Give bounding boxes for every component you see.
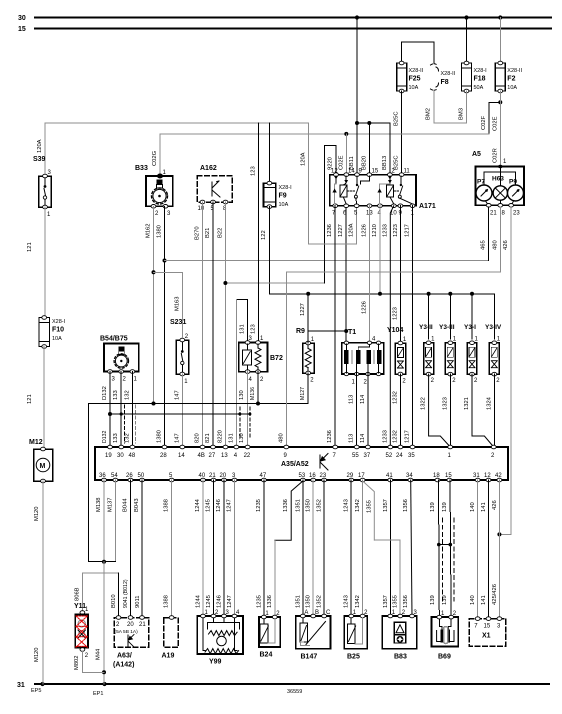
wire 1243 : ECU pin29 to B25 pin 1 xyxy=(350,480,352,616)
windings xyxy=(344,350,348,364)
svg-text:8220: 8220 xyxy=(218,430,224,443)
svg-text:BB20: BB20 xyxy=(361,156,367,170)
wire 1388 : ECU pin5 to A19 xyxy=(171,480,173,618)
svg-text:20: 20 xyxy=(220,473,227,479)
fuse F10 xyxy=(39,316,66,349)
svg-text:1210: 1210 xyxy=(372,224,378,237)
svg-text:B044: B044 xyxy=(123,498,129,512)
svg-text:1232: 1232 xyxy=(392,430,398,443)
svg-text:1244: 1244 xyxy=(195,498,201,512)
svg-text:1247: 1247 xyxy=(227,595,233,608)
stepper motor Y99 xyxy=(197,610,243,666)
wire feed rail : injectors/R9 rail xyxy=(269,293,494,295)
wire 1356 : ECU pin34 to B83 pin 3 xyxy=(411,480,412,616)
wire 1236 : A171 pin7 to ECU pin 7 xyxy=(334,206,336,447)
svg-text:114: 114 xyxy=(360,433,366,443)
svg-text:1235: 1235 xyxy=(256,499,262,512)
wire 139 : ECU pin18 to B69 pin 1 xyxy=(438,480,441,617)
wire 9220 line : A162 pin 8 net to A171 pin 12 xyxy=(225,282,324,284)
svg-text:140: 140 xyxy=(470,595,476,605)
svg-text:X1: X1 xyxy=(482,633,491,640)
svg-text:29: 29 xyxy=(347,473,354,479)
junction M162/M163 xyxy=(152,270,156,274)
wire F2 feed from rail 30 xyxy=(499,18,501,64)
svg-text:40: 40 xyxy=(199,473,206,479)
wire M127 : R9 pin2 to ground line xyxy=(258,373,308,404)
svg-text:1322: 1322 xyxy=(421,397,427,410)
svg-text:(A142): (A142) xyxy=(113,662,134,669)
svg-text:A35/A52: A35/A52 xyxy=(281,461,309,468)
wire 123 : rail to F9 xyxy=(268,123,270,183)
wire 1227 : A171 pin6 down to T1 xyxy=(345,206,347,343)
svg-text:14: 14 xyxy=(348,169,355,175)
svg-text:B270: B270 xyxy=(195,226,201,240)
svg-text:34: 34 xyxy=(406,473,413,479)
connector A19 dashed xyxy=(162,616,179,660)
svg-text:30: 30 xyxy=(117,453,124,459)
svg-text:131: 131 xyxy=(229,433,235,443)
svg-text:Y3-III: Y3-III xyxy=(439,324,455,331)
svg-text:F2: F2 xyxy=(507,76,515,83)
fuse F18 xyxy=(462,61,488,93)
svg-text:M802: M802 xyxy=(74,655,80,670)
svg-text:30: 30 xyxy=(18,15,26,22)
svg-text:15: 15 xyxy=(372,169,379,175)
svg-text:9041 (B012): 9041 (B012) xyxy=(123,579,129,608)
relay box A171 xyxy=(330,169,436,217)
svg-text:1223: 1223 xyxy=(393,224,399,237)
wire 139 : ECU pin15 to B69 pin 2 xyxy=(450,480,451,617)
svg-text:120A: 120A xyxy=(37,139,43,153)
svg-text:1235: 1235 xyxy=(256,595,262,608)
svg-text:M120: M120 xyxy=(34,647,40,662)
wire 120A : S39 up and across (line-1) xyxy=(45,123,308,173)
ECU bottom pin numbers xyxy=(99,473,502,479)
wire 114 : T1 pin2 to ECU pin 37 xyxy=(367,374,369,447)
svg-text:26: 26 xyxy=(126,473,133,479)
svg-text:B83: B83 xyxy=(394,654,407,661)
wire 1233 : A171 pin10 down to ECU pin 52 xyxy=(390,206,394,447)
svg-text:1226: 1226 xyxy=(361,301,367,314)
svg-text:B010: B010 xyxy=(111,594,117,608)
svg-text:B33: B33 xyxy=(135,165,148,172)
ECU bottom pin bumps xyxy=(102,478,502,482)
wire 147 : S231 pin1 to ECU pin 14 xyxy=(181,374,183,447)
svg-text:114: 114 xyxy=(360,394,366,404)
wire rail 31 xyxy=(35,683,549,685)
fuse F2 xyxy=(495,61,522,93)
svg-text:F9: F9 xyxy=(279,193,287,200)
svg-text:Y99: Y99 xyxy=(209,659,222,666)
svg-text:R9: R9 xyxy=(296,328,305,335)
svg-text:1236: 1236 xyxy=(327,224,333,237)
svg-text:1350: 1350 xyxy=(306,595,312,608)
svg-text:B69: B69 xyxy=(438,654,451,661)
wire 465 : to A5 pin 21 xyxy=(165,260,489,262)
wire D132 : B54 pin3 to ECU pin 19 xyxy=(109,372,111,448)
wire B21/821 : A162 pin5 to ECU xyxy=(212,202,214,447)
svg-text:1245: 1245 xyxy=(206,499,212,512)
svg-text:C02G: C02G xyxy=(152,150,158,166)
wire M802 : Y11 pin2 to M44 xyxy=(82,651,104,672)
wire M138 : ECU pin36 to ground merge xyxy=(103,480,105,562)
svg-text:20: 20 xyxy=(127,622,134,628)
svg-text:42: 42 xyxy=(495,473,502,479)
svg-text:1323: 1323 xyxy=(442,397,448,410)
svg-text:M120: M120 xyxy=(34,506,40,521)
svg-text:28: 28 xyxy=(160,453,167,459)
wire BB20 : rail drop to A171 pin 15 xyxy=(368,123,370,175)
shield dashes beside 133/132 xyxy=(124,405,126,443)
svg-text:1336: 1336 xyxy=(283,499,289,512)
svg-text:132: 132 xyxy=(124,390,130,400)
wire 1247 : ECU pin3 to Y99 pin 4 xyxy=(234,480,236,616)
svg-text:F8: F8 xyxy=(441,79,449,86)
svg-text:H63: H63 xyxy=(492,176,504,183)
svg-text:M44: M44 xyxy=(96,648,102,660)
svg-text:A171: A171 xyxy=(419,203,436,210)
sensor B72 xyxy=(239,336,283,383)
svg-text:1355: 1355 xyxy=(393,595,399,608)
svg-text:47: 47 xyxy=(260,473,267,479)
svg-text:123: 123 xyxy=(251,166,257,176)
svg-text:BM3: BM3 xyxy=(459,108,465,120)
svg-text:131: 131 xyxy=(240,324,246,334)
svg-text:50A: 50A xyxy=(474,85,484,91)
wire 1355 : ECU pin 17 jog to B83 pin 2 xyxy=(363,481,375,540)
svg-text:A162: A162 xyxy=(200,165,217,172)
wire bracket F25-F8 tops xyxy=(402,42,434,63)
wire BB13 : rail corner to A171 pin 2 xyxy=(369,123,390,175)
svg-text:M12: M12 xyxy=(29,439,43,446)
wire 1342 : ECU pin17 to B25 pin 2 xyxy=(362,480,364,616)
svg-text:1355: 1355 xyxy=(367,500,373,513)
svg-text:A: A xyxy=(304,610,308,616)
svg-text:41: 41 xyxy=(386,473,393,479)
svg-text:52: 52 xyxy=(386,453,393,459)
svg-text:1233: 1233 xyxy=(383,224,389,237)
injector Y3-II xyxy=(419,292,435,384)
svg-text:821: 821 xyxy=(205,433,211,443)
svg-text:1356: 1356 xyxy=(403,499,409,512)
svg-text:14: 14 xyxy=(178,453,185,459)
wire 465 : A5 pin21 down to 1380 tie line xyxy=(488,207,490,261)
wire 1235 : ECU pin47 to B24 pin 1 xyxy=(263,480,265,617)
svg-text:T1: T1 xyxy=(348,329,356,336)
svg-text:S39: S39 xyxy=(33,156,46,163)
svg-text:M163: M163 xyxy=(174,296,180,311)
svg-text:M138: M138 xyxy=(96,497,102,512)
svg-text:10A: 10A xyxy=(507,85,517,91)
ground merge bar xyxy=(89,561,116,563)
svg-text:1352: 1352 xyxy=(317,499,323,512)
svg-text:50: 50 xyxy=(138,473,145,479)
svg-text:1246: 1246 xyxy=(216,499,222,512)
svg-text:M: M xyxy=(40,463,46,470)
svg-text:113: 113 xyxy=(349,434,355,443)
svg-text:1227: 1227 xyxy=(338,224,344,237)
svg-text:X28-I: X28-I xyxy=(474,68,488,74)
svg-text:F25: F25 xyxy=(409,76,421,83)
svg-text:121: 121 xyxy=(27,394,33,404)
wire C02R : F2 to A5 pin 1 xyxy=(499,91,501,166)
svg-text:113: 113 xyxy=(349,395,355,404)
svg-text:21: 21 xyxy=(139,622,146,628)
svg-text:55: 55 xyxy=(352,453,359,459)
wire 806B : Y11 pin1 up over to A63 pin 2 xyxy=(82,573,118,612)
bottom pin bumps xyxy=(333,204,338,208)
sensor B33 (CO potentiometer) xyxy=(135,165,173,217)
svg-text:133: 133 xyxy=(113,390,119,400)
svg-text:1388: 1388 xyxy=(164,499,170,512)
svg-text:121: 121 xyxy=(27,242,33,252)
svg-text:4B: 4B xyxy=(198,453,205,459)
svg-text:1246: 1246 xyxy=(217,595,223,608)
svg-text:(5A 5B 1A): (5A 5B 1A) xyxy=(115,629,139,635)
bottom pins xyxy=(486,201,489,206)
svg-text:1236: 1236 xyxy=(327,430,333,443)
svg-text:B21: B21 xyxy=(205,228,211,238)
svg-text:806B: 806B xyxy=(74,587,80,601)
control unit A35/A52 xyxy=(95,447,508,480)
svg-text:1223: 1223 xyxy=(393,307,399,320)
svg-text:D132: D132 xyxy=(102,430,108,443)
wire 1380 : B33 pin3 down to ECU pin 28 xyxy=(164,206,166,447)
fuse F9 xyxy=(264,181,293,208)
junction C02E to A171 pin 14 xyxy=(344,132,348,136)
throttle sensor B147 xyxy=(296,610,331,661)
instrument block A5 xyxy=(472,151,524,217)
svg-text:53: 53 xyxy=(299,473,306,479)
svg-text:EP1: EP1 xyxy=(93,691,103,697)
wire 113 : T1 pin1 to ECU pin 55 xyxy=(356,374,358,447)
svg-text:1350: 1350 xyxy=(306,499,312,512)
svg-text:1336: 1336 xyxy=(267,595,273,608)
wire 140 : ECU pin31 to X1 pin 7 xyxy=(477,480,479,619)
control unit A63/(A142) dashed xyxy=(113,616,149,669)
wire C02F : F2 branch to C02 line xyxy=(489,102,500,134)
wire B22/8220 : A162 pin8 to ECU xyxy=(225,202,227,447)
left relay internals xyxy=(332,176,369,204)
wire 141 : ECU pin12 to X1 pin 15 xyxy=(488,480,490,619)
wire 1336 : ECU pin53 to B24 pin 2 xyxy=(275,481,303,540)
svg-text:B72: B72 xyxy=(270,355,283,362)
switch S231 xyxy=(170,319,189,385)
svg-text:B25C: B25C xyxy=(394,111,400,126)
svg-text:123: 123 xyxy=(251,324,257,334)
svg-text:S231: S231 xyxy=(170,319,186,326)
svg-text:Y3-IV: Y3-IV xyxy=(485,324,502,331)
injector Y3-I xyxy=(464,292,479,384)
svg-text:19: 19 xyxy=(105,453,112,459)
crank sensor B69 xyxy=(432,611,459,661)
wire 121 : S39 to F10 xyxy=(44,207,46,318)
wire 1246 : ECU pin20 to Y99 pin 3 xyxy=(223,480,225,616)
wire 1232 : Y104 pin2 to ECU pin 24 xyxy=(399,374,401,447)
svg-text:F18: F18 xyxy=(474,76,486,83)
svg-text:B043: B043 xyxy=(134,498,140,512)
svg-text:B25: B25 xyxy=(347,654,360,661)
svg-text:X28-II: X28-II xyxy=(441,71,456,77)
ground line 1 : M162/M136 collector xyxy=(89,404,154,562)
motor M12 xyxy=(29,439,53,483)
svg-text:X28-II: X28-II xyxy=(409,68,424,74)
svg-text:426: 426 xyxy=(503,240,509,250)
svg-text:425/426: 425/426 xyxy=(492,584,498,605)
svg-text:1233: 1233 xyxy=(382,430,388,443)
svg-text:480: 480 xyxy=(492,240,498,250)
svg-text:B24: B24 xyxy=(260,652,273,659)
svg-text:820: 820 xyxy=(195,433,201,443)
wire BM2 : F8 down xyxy=(434,91,467,123)
svg-text:1217: 1217 xyxy=(405,224,411,237)
wire 1321 : Y3-I to ECU pin 2 xyxy=(472,374,494,447)
svg-text:BM2: BM2 xyxy=(426,108,432,120)
wire M136 : B72 pin2 to ground line xyxy=(257,372,259,404)
wire 1244 : ECU pin40 to Y99 pin 1 xyxy=(202,480,204,616)
injector Y3-III xyxy=(439,292,457,384)
svg-text:1351: 1351 xyxy=(295,595,301,608)
wire BB11 : rail drop to A171 pin 9 xyxy=(356,123,358,175)
right relay internals xyxy=(377,176,412,204)
wire 123 : line-1 down to B72 pin 1 xyxy=(258,123,260,343)
svg-text:139: 139 xyxy=(442,595,448,605)
svg-text:1357: 1357 xyxy=(383,499,389,512)
svg-text:1227: 1227 xyxy=(300,303,306,316)
svg-text:15: 15 xyxy=(445,473,452,479)
svg-text:1243: 1243 xyxy=(344,499,350,512)
svg-text:1342: 1342 xyxy=(355,499,361,512)
wire BM3 : up to F18 xyxy=(466,91,468,123)
svg-text:18: 18 xyxy=(433,473,440,479)
svg-text:37: 37 xyxy=(364,453,371,459)
wire 121 : F10 to M12 xyxy=(43,347,45,450)
svg-text:15: 15 xyxy=(18,26,26,33)
svg-text:133: 133 xyxy=(113,433,119,443)
wire 133 : B54 pin2 to ECU pin 30 xyxy=(120,372,122,448)
internals xyxy=(499,167,501,186)
wire 1217 : A171 pin1 to ECU pin 35 xyxy=(412,206,414,447)
svg-text:11: 11 xyxy=(404,169,411,175)
svg-text:139: 139 xyxy=(442,502,448,512)
wire 1210 : A171 pin4 down xyxy=(379,206,381,294)
svg-text:35: 35 xyxy=(408,453,415,459)
svg-text:A63/: A63/ xyxy=(117,653,132,660)
injector Y3-IV xyxy=(485,294,502,384)
svg-text:23: 23 xyxy=(320,473,327,479)
svg-text:465: 465 xyxy=(481,240,487,250)
svg-text:1357: 1357 xyxy=(383,595,389,608)
wire 1350 : ECU pin16 to B147 B xyxy=(312,480,314,616)
wire C02E : C02-line to A171 pin 14 xyxy=(345,134,347,175)
svg-text:1232: 1232 xyxy=(392,391,398,404)
junction below F2 xyxy=(498,100,502,104)
wire 1324 : Y3-IV to ECU pin 2 xyxy=(493,374,495,447)
wire 1357 : ECU pin41 to B83 pin 1 xyxy=(389,480,391,616)
wire M137 : ECU pin54 to ground merge xyxy=(114,480,116,562)
svg-text:B54/B75: B54/B75 xyxy=(100,336,128,343)
switch S39 xyxy=(33,156,52,218)
svg-text:36559: 36559 xyxy=(287,689,302,695)
svg-text:10A: 10A xyxy=(52,336,62,342)
svg-text:1356: 1356 xyxy=(403,595,409,608)
svg-text:21: 21 xyxy=(209,473,216,479)
svg-text:X28-II: X28-II xyxy=(507,68,522,74)
svg-text:141: 141 xyxy=(481,595,487,605)
svg-text:D132: D132 xyxy=(102,386,108,400)
svg-text:1247: 1247 xyxy=(227,499,233,512)
svg-text:36: 36 xyxy=(99,473,106,479)
svg-text:31: 31 xyxy=(17,682,25,689)
wire M162 : B33 pin2 down to ground line xyxy=(153,206,155,403)
svg-text:B22: B22 xyxy=(218,228,224,238)
svg-text:21: 21 xyxy=(490,211,497,217)
svg-text:12: 12 xyxy=(331,169,338,175)
svg-text:BB13: BB13 xyxy=(382,156,388,170)
svg-text:10A: 10A xyxy=(279,202,289,208)
svg-text:M162: M162 xyxy=(146,223,152,238)
junction rail/R9 xyxy=(306,292,310,296)
wire F18 feed from rail 30 xyxy=(466,18,468,64)
wire 1227 : rail junction to R9 pin 1 xyxy=(307,294,309,343)
svg-text:Y3-I: Y3-I xyxy=(464,324,476,331)
wire 122 : F9 down to 123-line xyxy=(268,207,270,294)
connector X1 dashed xyxy=(469,617,506,646)
svg-text:X28-I: X28-I xyxy=(279,185,293,191)
svg-text:M127: M127 xyxy=(300,387,306,400)
svg-text:C02R: C02R xyxy=(493,148,499,163)
wire rail 15 xyxy=(35,28,551,30)
wire M44 : merge down to rail 31 xyxy=(103,562,105,684)
svg-text:122: 122 xyxy=(261,230,267,240)
svg-text:M137: M137 xyxy=(107,497,113,512)
svg-text:130: 130 xyxy=(239,390,245,400)
wire B270/820 : A162 pin10 to ECU xyxy=(202,202,204,447)
valve Y11 (red) xyxy=(74,603,89,659)
svg-text:22: 22 xyxy=(244,453,251,459)
svg-text:12: 12 xyxy=(484,473,491,479)
svg-text:1388: 1388 xyxy=(164,595,170,608)
svg-text:EP5: EP5 xyxy=(31,688,41,694)
svg-text:C02E: C02E xyxy=(493,116,499,131)
svg-text:54: 54 xyxy=(111,473,118,479)
svg-text:1342: 1342 xyxy=(355,595,361,608)
wire feed from rail 30 xyxy=(356,18,358,124)
valve Y104 xyxy=(387,327,407,385)
wire 1351 : ECU pin53 to B147 A xyxy=(302,480,304,616)
svg-text:23: 23 xyxy=(513,211,520,217)
svg-text:480: 480 xyxy=(278,433,284,443)
svg-text:X28-I: X28-I xyxy=(52,319,66,325)
svg-text:1321: 1321 xyxy=(464,397,470,410)
svg-text:139: 139 xyxy=(430,595,436,605)
control unit A162 (dashed) xyxy=(197,165,232,212)
svg-text:A19: A19 xyxy=(162,653,175,660)
wire M163 : to S231 pin 2 xyxy=(154,272,183,337)
svg-text:A5: A5 xyxy=(472,151,481,158)
wire B25C : F25 to A171 pin 11 xyxy=(401,91,403,176)
svg-text:27: 27 xyxy=(209,453,216,459)
shield dashes around 139 pair xyxy=(441,518,443,601)
svg-text:31: 31 xyxy=(473,473,480,479)
svg-text:Y104: Y104 xyxy=(387,327,403,334)
svg-text:1380: 1380 xyxy=(157,430,163,443)
svg-text:B: B xyxy=(315,610,319,616)
ground EP5 xyxy=(40,682,44,686)
knock sensor B83 xyxy=(382,610,417,661)
temp sensor B24 xyxy=(259,611,280,659)
svg-text:1244: 1244 xyxy=(196,594,202,608)
